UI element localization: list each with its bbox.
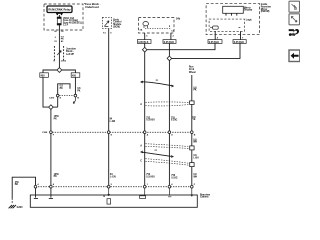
inline connector box 3 (208, 40, 222, 44)
wire pin E down to splice (57, 97, 59, 107)
wire splice horizontal (43, 70, 75, 73)
svg-text:Underhood: Underhood (85, 5, 99, 9)
svg-text:WH: WH (193, 142, 197, 144)
ISRVM outer dashed box (206, 4, 260, 35)
logic minus mark (239, 26, 241, 28)
blower module box (30, 195, 197, 207)
logic oval component (213, 26, 219, 29)
ground wire dashed tail (11, 198, 13, 204)
svg-text:Logic: Logic (246, 20, 253, 22)
wire2 entry minus (168, 188, 171, 197)
svg-text:L-BU: L-BU (193, 158, 199, 160)
wire value label 450 BK (15, 181, 20, 186)
mirror display module box (223, 6, 244, 13)
display pins (226, 13, 237, 15)
detent box 2 on wire4 (190, 146, 194, 150)
svg-text:C: C (140, 160, 142, 163)
svg-text:BK: BK (15, 184, 19, 186)
svg-text:PK: PK (60, 88, 64, 90)
switch inner dashed link (145, 28, 171, 30)
svg-text:Display: Display (244, 10, 253, 12)
switch lever below pin B (73, 97, 75, 104)
net1 horizontal wire (147, 43, 215, 49)
fuse block underhood dashed box (44, 4, 83, 30)
inline connector dashed line C208 (52, 131, 190, 133)
toolbar icon pan (289, 29, 299, 36)
svg-text:0.35 BLK: 0.35 BLK (164, 41, 175, 44)
junction block left I/P dashed outline (54, 46, 63, 61)
switch lamp oval (143, 22, 149, 26)
svg-text:450: 450 (72, 74, 77, 77)
wire1 value label lower (146, 174, 155, 178)
svg-text:(BCM): (BCM) (113, 26, 120, 28)
BCM dashed box (102, 17, 111, 28)
wire1 value label 752 (146, 117, 155, 121)
wire value label 84 L-GN lower (110, 173, 116, 178)
splice S2 diamond (49, 105, 54, 110)
svg-text:450: 450 (41, 74, 46, 77)
toolbar icon zoom-out (289, 14, 300, 25)
wire main feed down left column (50, 109, 52, 185)
wire relay to fuse (58, 15, 60, 17)
wire value label 0.8 PK right (77, 88, 81, 92)
contact pin B circle (74, 94, 77, 97)
ground G200 symbol (9, 205, 16, 208)
svg-text:YE: YE (192, 119, 196, 121)
svg-text:Left I/P: Left I/P (66, 53, 74, 56)
ISRVM pin labels (217, 36, 244, 39)
svg-text:A: A (140, 103, 142, 106)
pin letters and connector label C470 (49, 96, 79, 99)
inline connector box 4 (233, 40, 246, 44)
splice S4 diamond (167, 56, 172, 61)
detent lens 1 dashed pair (145, 101, 189, 104)
bottom pin letters (37, 183, 195, 186)
ISRVM label (261, 4, 271, 13)
svg-text:G200: G200 (17, 206, 24, 209)
svg-text:0.10G: 0.10G (171, 178, 177, 180)
wire2 from box2 down (168, 43, 170, 56)
wire2 value label lower (171, 175, 177, 179)
wire4 value label 0.8 WH upper (193, 139, 197, 143)
switch wiper 1 (141, 82, 174, 86)
BCM input arrow and resistor (108, 188, 110, 196)
svg-text:3A: 3A (140, 28, 143, 31)
wire fuse output down (58, 25, 60, 68)
wire4 value label lower (193, 174, 197, 178)
detent lens 2 dashed (145, 144, 189, 147)
BCM pin labels (103, 32, 112, 34)
switch right pin mark (169, 25, 171, 27)
wire1 from box1 down to splice (144, 43, 146, 47)
ground contact bar 1 (34, 188, 38, 198)
svg-text:0.35 BLK: 0.35 BLK (209, 41, 220, 44)
svg-text:0.35 BLK: 0.35 BLK (138, 41, 149, 44)
module label (200, 194, 210, 198)
inline connector box 1 (137, 40, 151, 44)
inline connector box right (71, 73, 80, 78)
connector pin circle on feed wire (50, 131, 53, 134)
svg-text:Wheel: Wheel (189, 72, 196, 74)
svg-text:A: A (140, 144, 142, 147)
inline connector box left (40, 73, 49, 78)
wire2 value label 753 (171, 117, 177, 121)
detent box 3 on wire4 (190, 163, 194, 167)
wire value label 0.8 PK left (60, 86, 64, 90)
svg-text:0.35 BLK: 0.35 BLK (234, 41, 245, 44)
connector pin circle wire4 C208 (191, 131, 194, 134)
junction block label (66, 47, 77, 56)
ISRVM pin wires (215, 31, 240, 39)
toolbar icon back (289, 50, 300, 62)
fuse F HVAC 10A (57, 17, 62, 25)
connector pin circle wire1 C208 (143, 131, 146, 134)
wire value label 84 L-GN upper (110, 118, 116, 123)
svg-text:0.10G: 0.10G (171, 120, 177, 122)
BCM label (113, 19, 122, 28)
inline connector box 2 (163, 40, 176, 44)
wire1 down (144, 52, 146, 186)
svg-text:WH: WH (193, 176, 197, 178)
svg-text:PK: PK (54, 119, 58, 121)
junction block connector arrow (57, 51, 61, 55)
wire4 value label (192, 117, 196, 121)
svg-text:C102: C102 (61, 60, 67, 62)
svg-text:C1 A: C1 A (63, 24, 68, 27)
pin labels below fuse block (54, 31, 64, 43)
blower switch dashed box (138, 18, 174, 33)
ground contact bar 2 (49, 188, 53, 198)
svg-text:L-GN: L-GN (110, 177, 116, 179)
svg-text:Camera: Camera (200, 197, 209, 199)
connector pin circles bottom row (34, 185, 37, 188)
svg-text:(ISRVM): (ISRVM) (261, 11, 270, 13)
logic inner dashed box (209, 19, 244, 31)
svg-text:S4b: S4b (176, 17, 181, 20)
wire2 down (168, 60, 170, 185)
relay K RUN/CRNK (47, 6, 72, 13)
svg-text:L-GN: L-GN (110, 121, 116, 123)
wire value label 1050 PK (54, 116, 60, 120)
switch pin labels (146, 36, 174, 38)
contact pin E circle (56, 94, 59, 97)
svg-text:C208: C208 (42, 132, 48, 134)
switch wiper 2 (141, 152, 174, 157)
mirror display label (244, 7, 253, 11)
splice S3 diamond (142, 47, 147, 52)
toolbar icon zoom-in (289, 1, 300, 12)
junction block pin labels (53, 60, 66, 62)
svg-text:RUN/CRNK Relay: RUN/CRNK Relay (48, 8, 71, 12)
connector pin circle BCM wire at C208 (107, 131, 110, 134)
wire BCM output down (108, 29, 110, 186)
wire right branch down to pin B (74, 77, 76, 94)
detent lens 3 dashed (145, 159, 189, 164)
svg-text:C470: C470 (49, 96, 55, 99)
dashed link pin E to pin B (59, 95, 74, 97)
svg-text:Crnk: Crnk (189, 69, 195, 71)
lamp pins (144, 26, 147, 28)
BCM driver arrow (104, 21, 109, 27)
wire4 value label 0.8 L-BU (193, 155, 199, 159)
wire splice S2 right arm (53, 106, 58, 108)
wire4 entry arrow (191, 188, 193, 196)
net2 horizontal wire (171, 43, 240, 58)
svg-text:0.10-BU: 0.10-BU (146, 120, 155, 122)
wire4 down (191, 75, 193, 185)
relay pins (57, 13, 61, 16)
fuse block label (84, 2, 101, 9)
switch pin wires down (145, 33, 171, 40)
svg-text:PK: PK (54, 176, 58, 178)
connector pin circle wire2 C208 (168, 131, 171, 134)
splice S1 diamond (57, 68, 62, 73)
wire value label lower (54, 174, 60, 178)
wire left branch down (43, 77, 49, 107)
svg-text:0.10-BU: 0.10-BU (146, 176, 155, 178)
fuse value label (63, 17, 82, 27)
bottom connector dashed line (36, 186, 192, 188)
svg-text:PK: PK (77, 91, 81, 93)
wire4 value label 0.8 PK (193, 87, 197, 91)
ground branch wire (12, 177, 35, 198)
svg-text:Run: Run (189, 66, 194, 68)
wire4 value label 3 lines (189, 66, 196, 74)
wire1 entry component (144, 188, 146, 196)
detent box 1 on wire4 (190, 101, 195, 105)
relay contact staple (58, 84, 70, 95)
svg-text:PK: PK (193, 90, 197, 92)
